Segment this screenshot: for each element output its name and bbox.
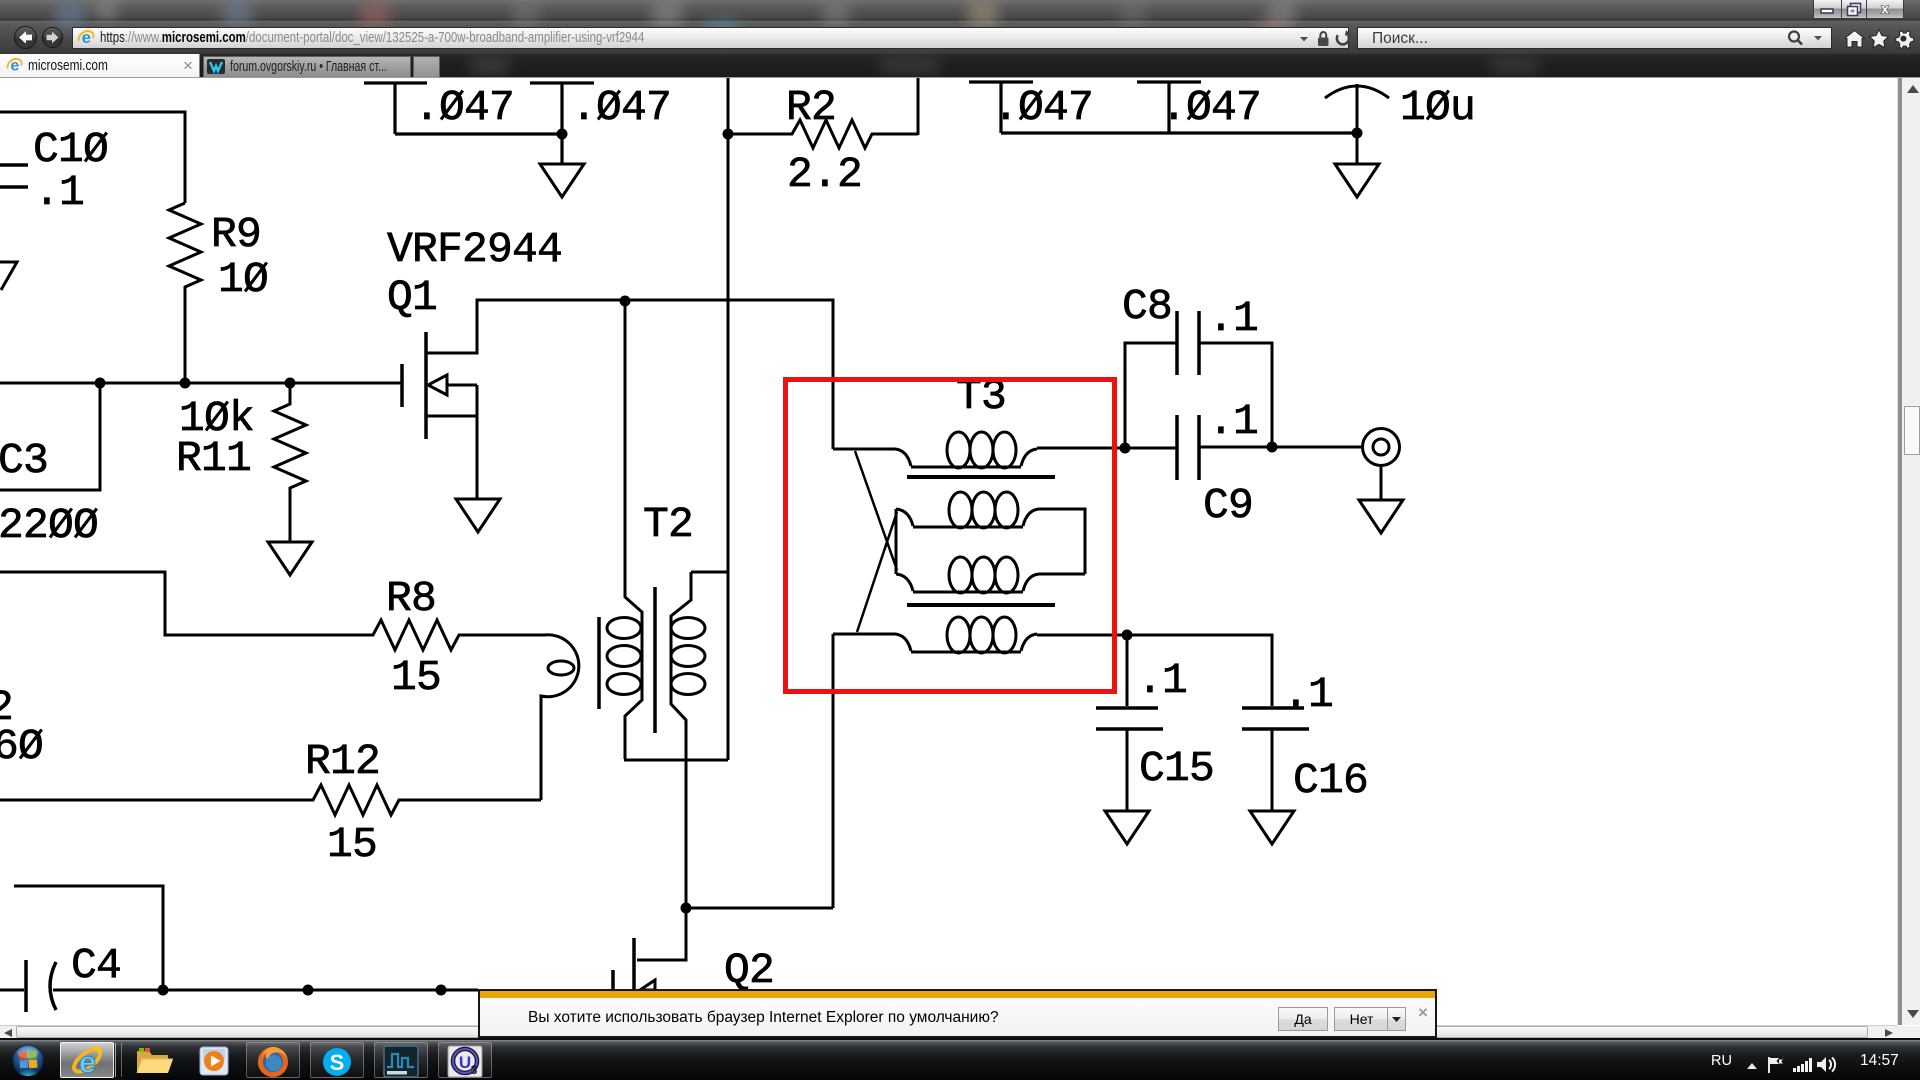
svg-text:U: U xyxy=(459,1053,471,1072)
svg-text:S: S xyxy=(330,1050,345,1075)
svg-text:e: e xyxy=(79,1045,96,1080)
svg-text:3: 3 xyxy=(471,1063,478,1077)
